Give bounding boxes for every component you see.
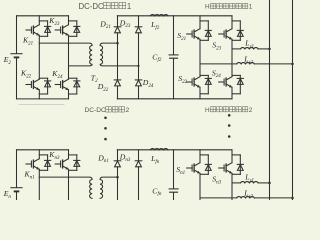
svg-text:DC-DC: DC-DC (79, 2, 104, 11)
svg-text:DC-DC: DC-DC (85, 107, 106, 114)
svg-text:1: 1 (249, 4, 253, 11)
svg-text:2: 2 (249, 107, 253, 114)
svg-text:H: H (205, 107, 210, 114)
svg-text:H: H (205, 4, 210, 11)
svg-text:2: 2 (126, 107, 130, 114)
svg-text:1: 1 (127, 2, 131, 11)
